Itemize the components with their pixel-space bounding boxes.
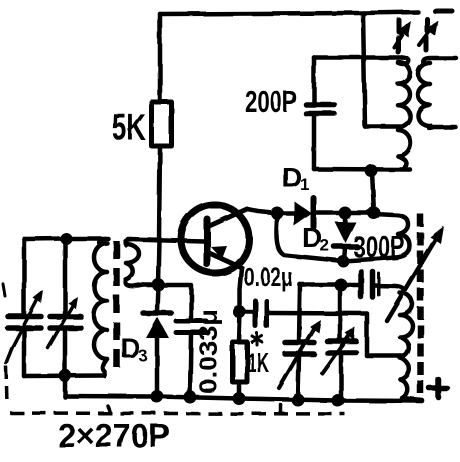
node junction dot emitter/0.02/1K — [233, 306, 246, 319]
diode D1 cathode bar — [311, 198, 317, 227]
wire from node up to transformer bottom rail — [372, 171, 374, 213]
inductor T2 primary top hook — [398, 58, 409, 65]
resistor R2 value label 1K — [247, 347, 269, 378]
transistor Q1 base bar — [204, 219, 211, 264]
wire D1 anode lead — [277, 211, 294, 216]
variable capacitor C4 bottom lead — [339, 354, 344, 400]
capacitor 0.02 right plate — [264, 301, 269, 326]
node junction dot at x374 — [368, 207, 381, 220]
variable capacitor C1 arrow head — [33, 290, 43, 303]
inductor T2 primary winding upper bumps — [398, 62, 410, 127]
variable capacitor C3 bottom plate — [285, 351, 314, 357]
ganged tuning dashed linkage horizontal — [10, 413, 345, 414]
node junction dot right tank top — [335, 279, 348, 292]
wire 1K top lead — [239, 312, 240, 342]
capacitor 0.033 value label rotated — [195, 309, 223, 394]
plus supply terminal — [429, 379, 447, 397]
resistor R1 value label 5K — [112, 107, 146, 148]
wire node to 0.033 capacitor — [158, 285, 191, 319]
node junction dot at coil/5K/D3 — [152, 278, 165, 291]
variable capacitor C3 branch vertical — [299, 285, 300, 342]
inductor T1 secondary bottom hook — [126, 280, 143, 286]
diode D2 cathode bar — [334, 244, 357, 250]
resistor R1 5K body — [152, 102, 172, 146]
wire node to 0.02 capacitor — [240, 310, 253, 315]
wire left tank bottom — [24, 373, 105, 378]
inductor L3 output coil bumps — [400, 293, 413, 379]
wire right tank top corner — [300, 282, 341, 287]
svg-text:2×270P: 2×270P — [58, 417, 170, 454]
capacitor 0.033 bottom lead — [190, 334, 191, 397]
variable capacitor C2 bottom plate — [50, 325, 81, 331]
capacitor 0.02 value label — [244, 262, 293, 292]
diode D3 cathode lead — [157, 285, 158, 311]
wire D2 cathode to loop bottom — [344, 248, 345, 261]
variable capacitor C4 arrow head — [345, 327, 355, 340]
wire T2 tap horizontal — [365, 124, 400, 129]
wire right tank to coupling cap — [341, 283, 358, 288]
variable capacitor C1 bottom plate — [8, 325, 41, 331]
inductor T1 secondary top hook — [125, 239, 131, 245]
node junction dot on T2 bottom rail — [365, 164, 378, 177]
diode D3 triangle — [146, 317, 169, 338]
variable coupling arrow 1 shaft — [394, 26, 407, 47]
wire 0.02 capacitor to output coil tap — [269, 313, 403, 356]
capacitor top-right right plate — [370, 272, 376, 298]
node junction dot left tank top — [60, 233, 72, 245]
node junction dot ground 0.033 — [184, 391, 197, 404]
diode D1 triangle — [294, 201, 312, 226]
variable capacitor C2 bottom lead — [63, 330, 68, 376]
inductor T2 secondary top hook — [423, 58, 456, 64]
capacitor 0.033 top plate — [176, 319, 206, 324]
wire top supply rail — [160, 12, 418, 14]
variable capacitor C4 bottom plate — [327, 350, 356, 356]
wire D1 cathode to D2 node — [316, 211, 345, 216]
wire tank bottom to ground rail — [63, 376, 68, 397]
diode D3 cathode bar — [143, 310, 171, 316]
variable capacitor C2 arrow shaft — [48, 305, 73, 348]
scan artifact mark left edge — [3, 284, 5, 296]
diode D1 label — [282, 162, 309, 194]
wire transformer T2 top link — [314, 55, 402, 60]
capacitor 200P bottom lead — [312, 115, 317, 169]
variable capacitor C2 arrow head — [68, 297, 78, 309]
variable capacitor C1 top plate — [8, 314, 41, 320]
svg-text:5K: 5K — [112, 107, 146, 148]
svg-text:0.02μ: 0.02μ — [244, 262, 293, 292]
variable capacitor C3 arrow head — [310, 320, 321, 333]
inductor T2 primary winding lower bump — [398, 130, 411, 156]
svg-text:1: 1 — [300, 175, 309, 194]
variable coupling arrow 2 cross stroke — [426, 19, 427, 50]
wire main bottom ground rail — [65, 396, 422, 401]
ganged capacitor value label 2x270P — [58, 417, 170, 454]
wire emitter down to node — [240, 268, 242, 312]
capacitor 0.033 bottom plate — [176, 330, 208, 335]
inductor T1 primary top hook — [99, 239, 105, 246]
transistor Q1 emitter arrowhead (PNP) — [211, 246, 227, 259]
variable coupling arrow 2 head — [425, 20, 438, 36]
variable capacitor C1 top lead — [22, 239, 27, 315]
capacitor 0.02 left plate — [253, 301, 258, 326]
transistor Q1 circle — [181, 205, 249, 273]
ganged tuning linkage tick left — [108, 406, 110, 413]
node junction dot ground D3 — [151, 390, 164, 403]
inductor T2 secondary bottom hook and lead — [429, 126, 456, 128]
capacitor 300P value label — [353, 229, 405, 264]
node junction dot ground varcap C4 — [332, 394, 345, 407]
transistor Q1 emitter stroke — [207, 252, 242, 268]
diode D3 label — [120, 332, 147, 365]
wire base from transformer secondary to transistor base — [128, 239, 204, 241]
diode D3 anode lead to ground rail — [155, 338, 160, 396]
node junction dot ground 1K — [233, 392, 246, 405]
wire transformer T2 bottom rail — [314, 167, 410, 172]
wire resistor bottom down through base crossover to node — [158, 146, 160, 284]
minus supply terminal — [435, 9, 452, 14]
variable capacitor C1 arrow shaft — [12, 298, 38, 348]
svg-text:1K: 1K — [247, 347, 269, 378]
node junction dot collector/D1/loop — [271, 207, 284, 220]
ganged tuning dashed linkage left vertical — [6, 366, 7, 404]
variable capacitor C3 arrow shaft — [279, 328, 314, 388]
inductor L3 core dashes — [417, 214, 424, 398]
capacitor 200P top plate — [306, 102, 334, 108]
inductor T2 secondary winding bumps — [418, 63, 430, 126]
wire collector to D1 node — [247, 209, 277, 213]
wire top rail down to T2 tap — [363, 13, 365, 127]
inductor T2 primary bottom hook — [398, 156, 406, 169]
capacitor 200P value label — [245, 84, 297, 119]
resistor R2 1K body — [233, 342, 248, 382]
variable capacitor C2 top plate — [50, 314, 81, 320]
resistor R2 bottom lead — [237, 382, 242, 398]
inductor L3 variable arrow head — [430, 226, 444, 244]
svg-text:300P: 300P — [353, 229, 405, 264]
wire 300P loop left side and bottom — [276, 213, 396, 261]
ganged tuning linkage tick — [279, 405, 283, 413]
variable coupling arrow 1 cross stroke — [398, 20, 399, 52]
inductor L3 variable arrow shaft — [387, 237, 437, 321]
capacitor 200P bottom plate — [306, 111, 334, 117]
node junction dot D2 on loop bottom — [337, 255, 349, 267]
variable coupling arrow 2 shaft — [419, 25, 434, 45]
svg-text:200P: 200P — [245, 84, 297, 119]
wire D2 anode stub — [343, 213, 348, 222]
transformer T1 core dashes — [113, 241, 120, 374]
svg-text:2: 2 — [320, 236, 329, 255]
transistor Q1 collector stroke — [207, 209, 247, 227]
diode D2 triangle — [335, 222, 356, 243]
inductor L3 bottom hook — [400, 379, 422, 400]
capacitor top-right right plate smudge — [377, 273, 380, 295]
diode D2 label — [302, 222, 329, 255]
variable capacitor C3 bottom lead — [298, 356, 299, 400]
variable capacitor C2 top lead — [63, 239, 68, 315]
resistor R2 asterisk mark — [252, 333, 262, 345]
wire 300P loop right curl — [374, 214, 410, 258]
variable capacitor C4 arrow shaft — [322, 334, 350, 373]
wire coupling cap to output coil top — [375, 286, 404, 293]
inductor T1 secondary winding bumps — [126, 244, 139, 280]
wire 5K branch from top rail — [158, 14, 163, 102]
node junction dot D1/D2 — [339, 207, 352, 220]
inductor T1 primary winding bumps — [94, 243, 107, 359]
node junction dot ground varcap C3 — [292, 394, 305, 407]
variable capacitor C1 bottom lead — [22, 330, 27, 376]
variable capacitor C4 branch vertical — [338, 285, 343, 340]
capacitor 200P top lead — [312, 58, 317, 104]
svg-text:0.033μ: 0.033μ — [195, 309, 223, 394]
inductor T1 primary bottom hook — [103, 359, 107, 376]
variable capacitor C4 top plate — [327, 338, 356, 344]
variable coupling arrow 1 head — [398, 21, 411, 37]
variable capacitor C3 top plate — [285, 340, 314, 346]
svg-text:3: 3 — [138, 346, 147, 365]
wire D2 node to varactor vertical node — [345, 211, 374, 216]
node junction dot left tank bottom — [59, 369, 72, 382]
variable capacitor C1 arrow tail — [6, 348, 12, 363]
wire left tank top — [24, 236, 108, 241]
capacitor top-right left plate — [358, 272, 364, 298]
wire secondary to node — [143, 282, 158, 287]
